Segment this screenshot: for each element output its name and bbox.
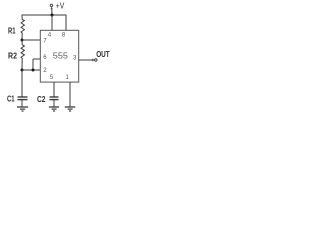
ground under pin1 xyxy=(65,107,76,111)
junction dot top bus xyxy=(51,14,54,17)
wire pin6 vertical xyxy=(32,59,34,70)
svg-text:555: 555 xyxy=(53,50,69,60)
wire pin5 to C2 xyxy=(53,82,55,97)
svg-text:3: 3 xyxy=(73,54,77,61)
svg-text:R1: R1 xyxy=(8,26,16,36)
svg-text:8: 8 xyxy=(62,32,66,39)
wire pin4 lead xyxy=(51,15,53,30)
ground under C1 xyxy=(17,107,28,111)
svg-text:7: 7 xyxy=(43,37,47,44)
svg-text:1: 1 xyxy=(66,74,70,81)
wire pin3 OUT xyxy=(79,59,93,61)
svg-text:6: 6 xyxy=(43,54,47,61)
svg-text:5: 5 xyxy=(50,74,54,81)
wire pin8 lead xyxy=(65,15,67,31)
junction dot pin6/pin2 xyxy=(32,69,35,72)
wire to pin2 xyxy=(22,69,40,71)
wire pin6 horizontal xyxy=(33,58,40,60)
wire pin1 to ground xyxy=(69,82,71,107)
terminal OUT xyxy=(95,59,98,62)
ground under C2 xyxy=(49,107,59,111)
svg-text:C2: C2 xyxy=(37,94,46,104)
svg-text:2: 2 xyxy=(43,67,47,74)
capacitor C2 xyxy=(50,97,59,107)
svg-text:+V: +V xyxy=(56,0,65,10)
resistor R1 xyxy=(21,15,24,41)
arrowhead OUT xyxy=(92,59,94,62)
svg-text:OUT: OUT xyxy=(96,49,110,59)
terminal +V xyxy=(50,4,53,15)
node R1/R2 junction dot xyxy=(21,39,24,42)
capacitor C1 xyxy=(18,97,28,107)
wire to C1 xyxy=(21,70,23,97)
svg-text:4: 4 xyxy=(48,32,52,39)
wire to pin7 xyxy=(22,39,40,41)
node R2/C1 junction dot xyxy=(21,69,24,72)
wire top bus xyxy=(22,14,67,16)
op-amp/IC U1 555 box xyxy=(40,30,78,82)
resistor R2 xyxy=(21,40,24,70)
svg-text:R2: R2 xyxy=(8,51,17,61)
svg-text:C1: C1 xyxy=(7,93,15,103)
